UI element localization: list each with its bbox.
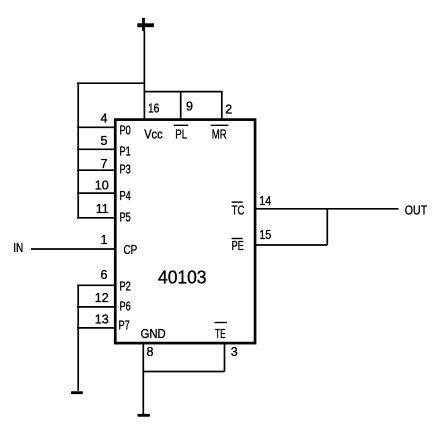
- svg-text:Vcc: Vcc: [144, 128, 162, 142]
- wire P5 stub pin 11: [77, 217, 115, 219]
- svg-text:CP: CP: [124, 243, 138, 257]
- svg-text:P0: P0: [120, 124, 131, 138]
- wire P1 stub pin 5: [77, 148, 115, 150]
- svg-text:11: 11: [96, 202, 109, 216]
- svg-text:15: 15: [259, 228, 271, 242]
- wire P7 stub pin 13: [77, 327, 115, 329]
- ground symbol at pin 8: [137, 414, 150, 417]
- svg-text:16: 16: [148, 101, 159, 115]
- svg-text:6: 6: [101, 268, 108, 282]
- wire pin 8 GND stub: [142, 343, 144, 414]
- svg-text:5: 5: [101, 134, 108, 148]
- svg-text:P5: P5: [120, 211, 131, 225]
- svg-text:P1: P1: [120, 144, 131, 158]
- svg-text:P7: P7: [119, 318, 130, 332]
- wire P6 stub pin 12: [77, 306, 115, 308]
- wire TC output pin 14 to OUT: [255, 208, 399, 210]
- pin label TE with overline: [215, 323, 228, 342]
- wire pin 2 stub: [221, 91, 223, 120]
- svg-text:14: 14: [259, 194, 271, 208]
- pin label MR with overline: [211, 125, 229, 141]
- svg-text:P4: P4: [120, 189, 131, 203]
- wire TE-to-GND link: [143, 371, 224, 373]
- power +V symbol: [137, 18, 154, 31]
- svg-text:7: 7: [101, 157, 108, 171]
- wire pin 3 TE stub: [224, 343, 226, 372]
- wire left bus upper (P0-P5): [77, 82, 79, 218]
- wire CP input pin 1: [31, 248, 116, 250]
- wire Vcc vertical from + to pin 16: [143, 31, 145, 120]
- wire left branch to P-bus: [77, 82, 144, 84]
- svg-text:P2: P2: [120, 280, 131, 294]
- wire PE pin 15: [255, 244, 327, 246]
- pin label PL with overline: [174, 125, 189, 141]
- svg-text:PE: PE: [232, 239, 244, 253]
- wire left bus lower (P2-P7 to ground): [77, 285, 79, 391]
- svg-text:40103: 40103: [158, 268, 207, 288]
- wire P0 stub pin 4: [77, 126, 115, 128]
- svg-text:9: 9: [186, 100, 193, 114]
- wire P4 stub pin 10: [77, 192, 115, 194]
- wire top pin bus: [144, 91, 221, 93]
- pin label TC with overline: [232, 202, 245, 218]
- svg-text:3: 3: [231, 345, 238, 359]
- svg-text:P6: P6: [120, 300, 131, 314]
- svg-text:TE: TE: [215, 327, 226, 341]
- svg-text:OUT: OUT: [405, 203, 428, 217]
- wire PE-to-OUT vertical link: [326, 209, 328, 245]
- wire pin 9 stub: [180, 92, 182, 120]
- svg-text:2: 2: [225, 103, 232, 117]
- IC U1 40103 body: [115, 120, 255, 344]
- svg-text:TC: TC: [232, 204, 245, 218]
- svg-text:P3: P3: [120, 163, 131, 177]
- svg-text:MR: MR: [212, 128, 227, 142]
- svg-text:13: 13: [95, 312, 109, 326]
- wire P3 stub pin 7: [77, 169, 115, 171]
- svg-text:PL: PL: [175, 128, 187, 142]
- svg-text:GND: GND: [141, 327, 166, 341]
- svg-text:1: 1: [101, 233, 108, 247]
- svg-text:8: 8: [147, 345, 154, 359]
- svg-text:12: 12: [95, 291, 109, 305]
- svg-text:IN: IN: [13, 241, 23, 255]
- svg-text:4: 4: [101, 111, 108, 125]
- svg-text:10: 10: [95, 178, 109, 192]
- wire P2 stub pin 6: [77, 284, 115, 286]
- ground symbol left: [71, 391, 83, 394]
- pin label PE with overline: [232, 239, 244, 253]
